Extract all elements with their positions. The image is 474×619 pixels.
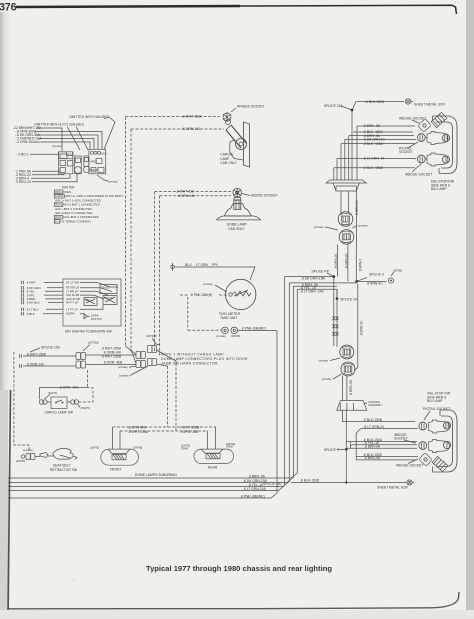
svg-text:SOCKET: SOCKET [394, 436, 408, 440]
svg-text:.8 BRN-9C: .8 BRN-9C [360, 320, 364, 336]
svg-text:.8 LT GRN-24: .8 LT GRN-24 [364, 425, 385, 429]
svg-text:RT FT LP: RT FT LP [66, 301, 78, 305]
svg-text:SPLICE 150: SPLICE 150 [263, 482, 282, 486]
svg-text:(unmate): (unmate) [52, 145, 62, 148]
svg-text:.8 LT GRN -24A: .8 LT GRN -24A [300, 289, 324, 293]
svg-text:.8 WHT-156B: .8 WHT-156B [101, 355, 122, 359]
svg-text:(2W425): (2W425) [231, 335, 240, 338]
svg-text:.8 ORN-140: .8 ORN-140 [182, 127, 200, 131]
svg-text:.8 BLK: .8 BLK [26, 312, 35, 316]
svg-text:LT FT LP: LT FT LP [66, 307, 78, 311]
svg-text:(unmate): (unmate) [203, 283, 213, 286]
svg-text:REAR: REAR [208, 466, 218, 470]
svg-text:ST LT SW: ST LT SW [66, 280, 79, 284]
svg-text:.8 BRN-9: .8 BRN-9 [359, 259, 363, 272]
svg-text:(unmate): (unmate) [216, 335, 226, 338]
svg-text:(unmate): (unmate) [322, 378, 332, 381]
svg-text:IGN SW: IGN SW [62, 186, 75, 190]
svg-text:JAMB SW HARN CONNECTOR.: JAMB SW HARN CONNECTOR. [161, 362, 219, 366]
svg-text:.8 BLK -150B: .8 BLK -150B [363, 166, 384, 170]
svg-text:.8 PNK-30B(MC): .8 PNK-30B(MC) [241, 327, 266, 331]
svg-text:.8 BRN-9C: .8 BRN-9C [367, 281, 384, 285]
svg-text:1+ 2+3 TERMS COMMON: 1+ 2+3 TERMS COMMON [55, 219, 90, 223]
svg-text:.8 WHT-156A: .8 WHT-156A [182, 115, 203, 119]
svg-text:(unmate): (unmate) [23, 449, 33, 452]
svg-text:B/U LAMP: B/U LAMP [427, 399, 443, 403]
svg-text:.8 LT GRN-24A: .8 LT GRN-24A [243, 487, 267, 491]
svg-text:.8 LT GRN -24: .8 LT GRN -24 [363, 157, 385, 161]
svg-text:.8 ORN-140: .8 ORN-140 [177, 194, 195, 198]
svg-text:(unmate): (unmate) [108, 181, 118, 184]
svg-text:PPL: PPL [212, 263, 218, 267]
svg-text:CAB ONLY: CAB ONLY [228, 227, 245, 231]
svg-text:.8 WHT: .8 WHT [26, 281, 36, 285]
svg-text:.8 BRN-9C: .8 BRN-9C [355, 199, 359, 215]
svg-text:376: 376 [0, 2, 17, 14]
svg-text:.8 LT BLU: .8 LT BLU [26, 308, 39, 312]
svg-text:BUTTON: BUTTON [91, 317, 102, 321]
svg-text:.8 ORN-140: .8 ORN-140 [103, 350, 121, 354]
svg-text:DIR SIG/HAZ FLSR/HORN SW: DIR SIG/HAZ FLSR/HORN SW [65, 330, 112, 334]
svg-text:SPLICE-PP: SPLICE-PP [312, 270, 330, 274]
svg-text:SPLICE 9: SPLICE 9 [369, 273, 384, 277]
svg-text:TERM: TERM [226, 446, 233, 449]
svg-text:TERM: TERM [181, 447, 188, 450]
svg-text:(unmate): (unmate) [119, 375, 129, 378]
svg-text:FRONT: FRONT [110, 467, 122, 471]
svg-text:(2W708): (2W708) [90, 447, 99, 450]
svg-text:LT GRN: LT GRN [196, 263, 209, 267]
svg-text:SPLICE 9: SPLICE 9 [324, 448, 339, 452]
svg-text:(2W701B): (2W701B) [88, 342, 99, 345]
svg-text:GRD 2: GRD 2 [91, 169, 99, 172]
svg-text:.8 BLK -150A: .8 BLK -150A [363, 142, 384, 146]
svg-text:SHEET METAL SCR: SHEET METAL SCR [377, 486, 408, 490]
svg-text:CAB ONLY: CAB ONLY [220, 161, 237, 165]
svg-text:IGN 3: IGN 3 [101, 153, 108, 156]
svg-text:HORN: HORN [66, 312, 75, 316]
svg-text:(unmate): (unmate) [358, 225, 368, 228]
svg-text:(2W275): (2W275) [81, 407, 90, 410]
svg-text:.8 DK GRN-19B: .8 DK GRN-19B [301, 277, 326, 281]
svg-text:SOCKET: SOCKET [399, 150, 413, 154]
svg-text:.8 BRN- 9A: .8 BRN- 9A [248, 474, 266, 478]
svg-text:B/U LAMP: B/U LAMP [431, 187, 447, 191]
svg-text:WEDGE SOCKET: WEDGE SOCKET [405, 173, 432, 177]
svg-text:.8 BLK-150B: .8 BLK-150B [363, 418, 383, 422]
svg-text:SPLICE-156: SPLICE-156 [41, 346, 60, 350]
svg-text:- 3 RD-1: - 3 RD-1 [16, 153, 29, 157]
svg-text:DOME LAMP CONNECTORS PLUG INTO: DOME LAMP CONNECTORS PLUG INTO DOOR [161, 357, 248, 361]
svg-text:HAZ SW: HAZ SW [104, 297, 114, 300]
svg-text:HAZ: HAZ [85, 299, 90, 302]
svg-text:SPLICE 24: SPLICE 24 [340, 297, 357, 301]
svg-text:OMITTED WITH 8 CYL GAUGES: OMITTED WITH 8 CYL GAUGES [34, 123, 85, 127]
svg-text:RETRACTOR SW: RETRACTOR SW [50, 468, 78, 472]
svg-text:(2W463): (2W463) [16, 460, 25, 463]
svg-text:(2W426): (2W426) [393, 270, 402, 273]
svg-text:(unmate): (unmate) [118, 366, 128, 369]
svg-text:DIR SIG: DIR SIG [101, 288, 110, 290]
svg-text:.8 BRN-9A: .8 BRN-9A [364, 445, 381, 449]
svg-text:(unmate): (unmate) [314, 226, 324, 229]
svg-text:.8 DK BLU: .8 DK BLU [26, 301, 40, 305]
svg-text:Typical 1977 through 1980 chas: Typical 1977 through 1980 chassis and re… [146, 564, 332, 573]
svg-text:- 3 RED-2C: - 3 RED-2C [14, 180, 32, 184]
svg-text:OMITTED WITH GAUGES: OMITTED WITH GAUGES [69, 115, 110, 119]
svg-text:NOTE 1 WITHOUT CARGO LAMP: NOTE 1 WITHOUT CARGO LAMP [161, 353, 224, 357]
svg-text:RINGED SOCKET: RINGED SOCKET [237, 105, 265, 109]
svg-text:1 ORN- 40B: 1 ORN- 40B [180, 430, 199, 434]
svg-text:DOME LAMPS SUBURBAN: DOME LAMPS SUBURBAN [135, 473, 177, 477]
svg-text:.8 BLK-150D: .8 BLK-150D [365, 100, 385, 104]
svg-text:TANK UNIT: TANK UNIT [220, 316, 237, 320]
svg-text:.8 BLK-150D: .8 BLK-150D [300, 479, 320, 483]
svg-text:CARGO LAMP SW: CARGO LAMP SW [45, 411, 74, 415]
svg-text:GROMMET: GROMMET [368, 403, 382, 407]
svg-text:(2W707B): (2W707B) [146, 335, 157, 338]
svg-text:.8 PNK-30B(MC): .8 PNK-30B(MC) [240, 494, 265, 498]
svg-text:SOL: SOL [68, 154, 73, 157]
svg-text:.: . [73, 576, 74, 582]
svg-text:.8 BRN-9B: .8 BRN-9B [364, 456, 381, 460]
svg-text:BLU: BLU [185, 263, 192, 267]
svg-text:(2W708): (2W708) [133, 447, 142, 450]
svg-text:SHEET METAL SCR: SHEET METAL SCR [414, 102, 445, 106]
svg-text:.8 ORN- 40B: .8 ORN- 40B [103, 360, 123, 364]
svg-text:.8 WHT-156A: .8 WHT-156A [128, 430, 149, 434]
svg-text:GRD 1: GRD 1 [90, 161, 98, 164]
svg-text:.8 BRN -9B: .8 BRN -9B [363, 124, 381, 128]
svg-text:890/252 SOCKET: 890/252 SOCKET [251, 193, 278, 197]
svg-text:.8 BRN-9B: .8 BRN-9B [349, 380, 353, 395]
svg-text:WEDGE SOCKET: WEDGE SOCKET [396, 464, 423, 468]
svg-text:(unmate): (unmate) [319, 360, 329, 363]
svg-text:.8 GRN-2C: .8 GRN-2C [345, 253, 349, 269]
svg-text:.8 GRN-2C: .8 GRN-2C [334, 253, 338, 269]
svg-text:.8 PNK-30B(H): .8 PNK-30B(H) [190, 293, 212, 297]
svg-text:SPLICE 150: SPLICE 150 [324, 104, 343, 108]
svg-text:-3 ORN-300A: -3 ORN-300A [16, 140, 37, 144]
